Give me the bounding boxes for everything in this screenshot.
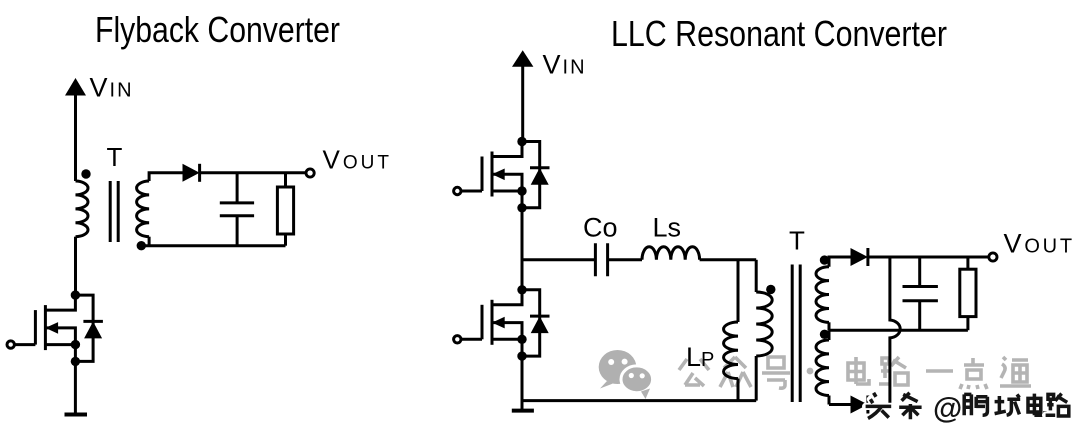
diode D3 (LLC bottom rectifier) — [851, 396, 868, 414]
svg-text:T: T — [107, 142, 123, 172]
watermark char dian — [848, 357, 869, 384]
wire mid node branch (LLC) — [522, 258, 595, 261]
resistor R2 (LLC load) — [960, 257, 976, 330]
capacitor Co (LLC resonant) — [595, 243, 607, 276]
wechat icon small bubble — [621, 366, 653, 399]
transformer T secondary bottom winding (LLC) — [816, 340, 829, 396]
watermark char tong — [1000, 357, 1031, 386]
diode D1 (flyback output rectifier) — [183, 164, 200, 182]
transformer T secondary winding (flyback) — [137, 181, 150, 237]
wire Lp top lead (LLC) — [737, 260, 740, 322]
wire VIN vertical (flyback) — [74, 93, 77, 181]
svg-text:@: @ — [933, 392, 962, 425]
transformer T core lines (flyback) — [110, 181, 118, 242]
wire top output rail (LLC) — [829, 256, 989, 259]
wire center tap to bottom winding (LLC T) — [828, 330, 831, 340]
wire secondary top lead (LLC T) — [829, 257, 851, 267]
transformer T core lines (LLC) — [792, 265, 800, 403]
capacitor C2 (LLC output) — [903, 257, 938, 330]
wire bottom rail (LLC) — [522, 399, 756, 402]
watermark char tiao — [899, 393, 921, 419]
node secondary top polarity dot (LLC T) — [820, 255, 829, 264]
watermark char lu — [879, 357, 908, 385]
svg-text:VOUT: VOUT — [1004, 228, 1075, 258]
wire VIN vertical (LLC) — [521, 65, 524, 142]
svg-text:T: T — [789, 226, 805, 256]
wire bottom rail (flyback output) — [141, 244, 285, 247]
ground (flyback) — [65, 413, 88, 417]
wire top rail (flyback output) — [199, 171, 306, 174]
wire Lp bottom lead (LLC) — [737, 379, 740, 401]
node secondary polarity dot (flyback) — [137, 241, 146, 250]
VIN arrow (flyback) — [65, 78, 86, 96]
watermark char cheng — [995, 394, 1021, 415]
node VOUT terminal (LLC) — [989, 253, 997, 261]
transistor Q3 (LLC low-side MOSFET) — [454, 285, 550, 361]
svg-text:VOUT: VOUT — [323, 144, 392, 174]
wechat icon big bubble — [599, 350, 637, 389]
inductor Ls (LLC resonant) — [642, 247, 700, 260]
wire primary bottom lead (LLC T) — [755, 356, 758, 401]
watermark char gong — [679, 359, 709, 386]
watermark char peng — [964, 394, 987, 415]
svg-text:LLC Resonant Converter: LLC Resonant Converter — [611, 13, 947, 54]
svg-text:Ls: Ls — [653, 213, 682, 243]
WATERMARKS-BLACK — [866, 392, 1069, 425]
node primary polarity dot (flyback T) — [81, 169, 90, 178]
wire secondary bottom lead (flyback) — [148, 237, 151, 246]
watermark at sign — [933, 392, 962, 425]
wire secondary top lead (flyback) — [149, 173, 183, 181]
node secondary bottom polarity dot (LLC T) — [820, 330, 829, 339]
svg-text:VIN: VIN — [543, 50, 587, 80]
watermark char dian2 — [960, 358, 987, 389]
resistor R1 (flyback load) — [277, 173, 293, 246]
wire primary top lead (LLC T) — [755, 260, 758, 292]
svg-text:VIN: VIN — [90, 72, 134, 102]
wire bottom rectifier rail (LLC) — [829, 403, 890, 406]
svg-text:Flyback Converter: Flyback Converter — [95, 9, 340, 50]
watermark char tou — [866, 393, 892, 419]
wire center tap rail (LLC) — [829, 329, 968, 332]
watermark char hao — [762, 357, 790, 388]
wire Ls to transformer (LLC) — [700, 258, 757, 261]
transformer T primary winding (LLC) — [756, 292, 772, 356]
wire Co to Ls (LLC) — [608, 258, 642, 261]
wire source to ground (flyback) — [74, 361, 77, 414]
ground (LLC) — [512, 409, 534, 413]
svg-text:LP: LP — [686, 342, 714, 372]
wire rectifier link with crossover hop (LLC) — [890, 257, 900, 405]
wire low-side source to ground rail (LLC) — [521, 356, 524, 411]
VIN arrow (LLC) — [512, 50, 533, 67]
node VOUT terminal (flyback) — [306, 169, 314, 177]
watermark char yi — [926, 369, 953, 373]
svg-text:Co: Co — [583, 213, 618, 243]
transistor Q2 (LLC high-side MOSFET) — [454, 137, 550, 213]
wire center tap lead (LLC T) — [828, 322, 831, 330]
transformer T secondary top winding (LLC) — [816, 267, 829, 323]
diode D2 (LLC top rectifier) — [851, 248, 868, 266]
WATERMARKS-GRAY — [599, 350, 1031, 399]
transistor Q1 (flyback MOSFET) — [7, 290, 103, 366]
wire primary to drain (flyback) — [74, 237, 77, 295]
watermark middle dot — [807, 368, 814, 375]
node primary polarity dot (LLC T) — [766, 285, 775, 294]
watermark char lu2 — [1046, 394, 1069, 416]
wire secondary bottom lead (LLC T) — [828, 396, 831, 405]
capacitor C1 (flyback output) — [220, 173, 254, 246]
inductor Lp (LLC magnetizing) — [724, 322, 738, 379]
watermark char dian3 — [1028, 394, 1045, 416]
watermark char zhong — [720, 357, 751, 387]
wire half-bridge mid leg (LLC) — [521, 208, 524, 290]
transformer T primary winding (flyback) — [76, 181, 89, 237]
